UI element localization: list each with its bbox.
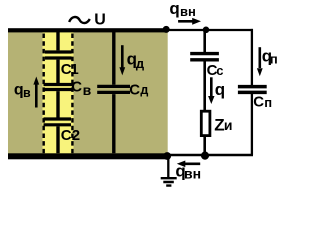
svg-text:с: с <box>216 63 223 78</box>
arrow qp <box>258 47 261 68</box>
defect channel strip <box>43 32 74 154</box>
dashed boundary left <box>43 34 45 154</box>
wire Zi to bottom <box>203 137 206 156</box>
svg-text:п: п <box>264 95 272 110</box>
arrow qv <box>35 83 38 108</box>
svg-text:вн: вн <box>184 166 201 182</box>
node bottom junction <box>201 152 209 160</box>
svg-text:q: q <box>169 0 179 18</box>
svg-text:C: C <box>129 81 140 98</box>
capacitor Cd <box>97 86 130 92</box>
wire Cc branch upper <box>203 30 206 52</box>
ground stub <box>167 156 169 177</box>
wire right branch lower <box>251 94 253 155</box>
capacitor Cc <box>190 54 219 60</box>
wire Cc to Zi <box>203 62 206 111</box>
svg-text:п: п <box>270 51 278 66</box>
svg-text:C: C <box>61 127 72 144</box>
node at bottom bus end <box>163 152 171 160</box>
svg-text:2: 2 <box>72 127 80 144</box>
ground <box>161 178 177 185</box>
wire right branch upper <box>251 29 253 85</box>
arrow qvn bottom <box>184 163 201 166</box>
svg-text:C: C <box>71 79 82 96</box>
node at top bus end <box>163 26 170 33</box>
capacitor Cp <box>238 87 267 93</box>
svg-text:в: в <box>83 82 92 98</box>
arrow q <box>210 77 213 96</box>
top electrode bus <box>8 28 168 32</box>
capacitor C1 <box>45 52 72 58</box>
wire top right <box>166 29 253 31</box>
svg-text:U: U <box>94 12 106 29</box>
arrow qd <box>121 45 124 68</box>
svg-text:д: д <box>140 83 148 97</box>
wire Cd branch <box>112 32 115 153</box>
svg-text:д: д <box>136 56 145 71</box>
svg-text:1: 1 <box>70 61 78 78</box>
svg-text:вн: вн <box>180 4 196 19</box>
arrow qvn top <box>178 20 193 23</box>
dielectric body (olive region) <box>8 32 168 154</box>
bottom electrode bus <box>8 153 170 159</box>
svg-text:q: q <box>215 80 225 99</box>
capacitor C2 <box>44 119 72 125</box>
svg-text:в: в <box>23 86 31 100</box>
impedance Zi box <box>201 111 210 135</box>
capacitor Cv <box>44 85 73 90</box>
wire bottom right <box>168 154 253 156</box>
svg-text:C: C <box>253 93 264 110</box>
svg-text:и: и <box>224 117 233 133</box>
AC source symbol ~ <box>69 17 90 23</box>
node top junction <box>203 27 210 34</box>
dashed boundary right <box>71 34 73 154</box>
wire center strip <box>56 32 59 153</box>
